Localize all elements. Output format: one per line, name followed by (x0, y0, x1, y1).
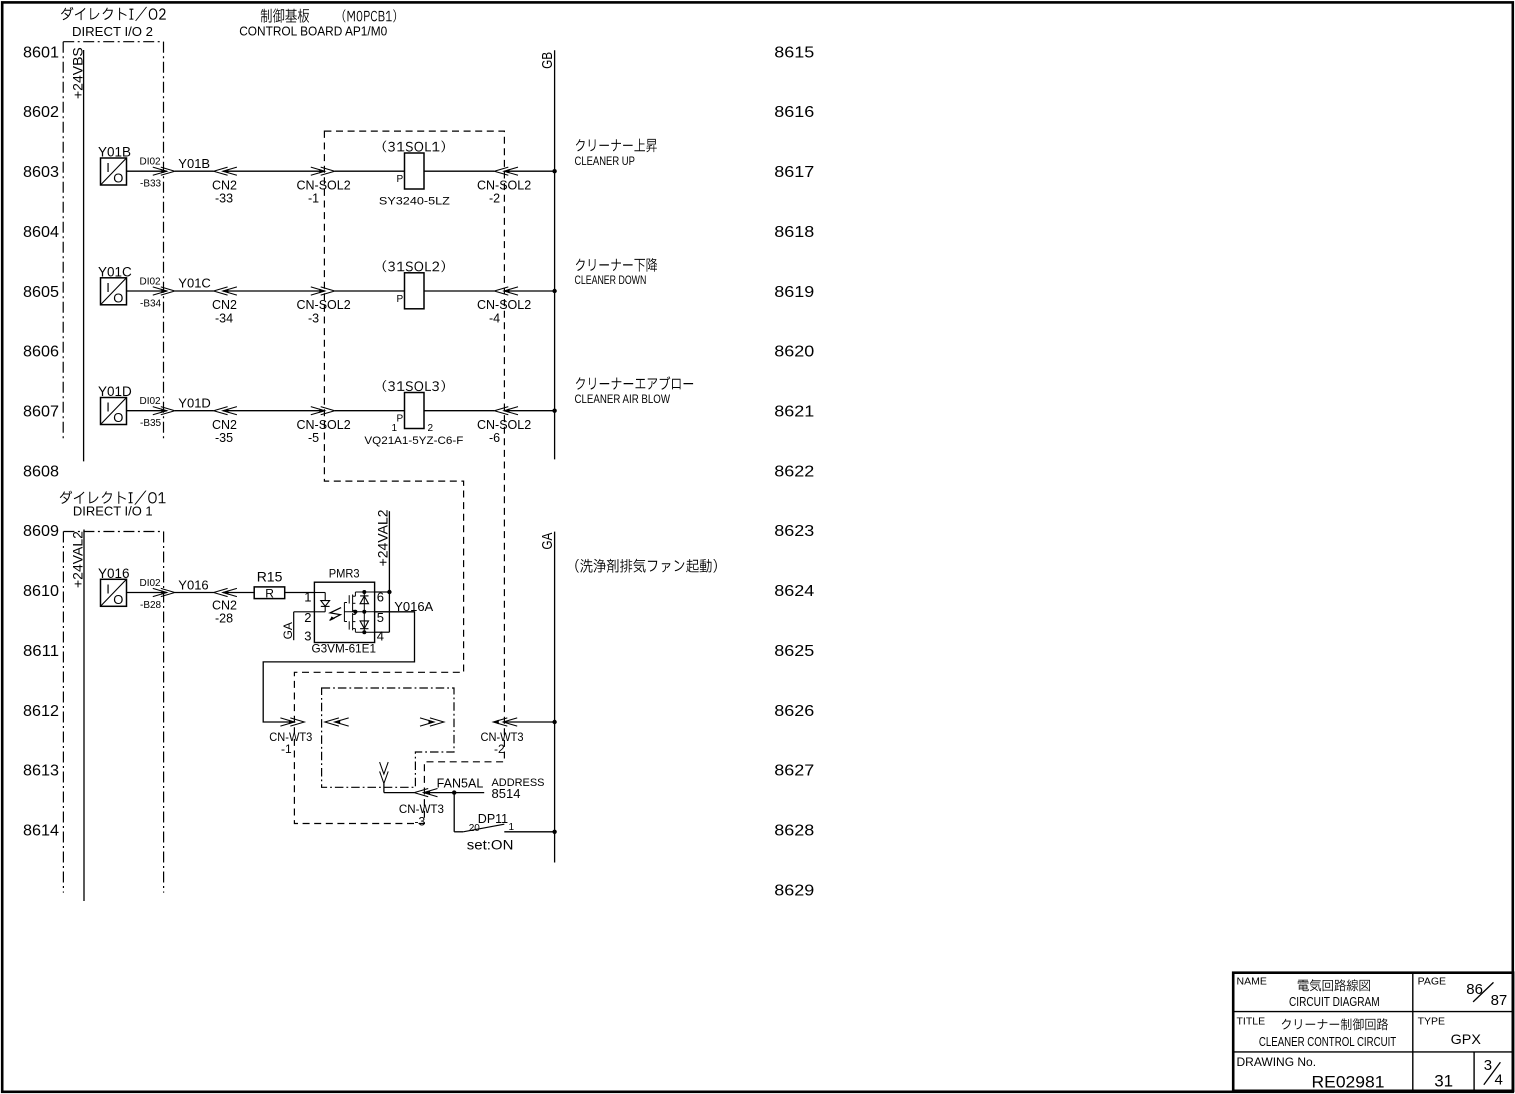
svg-text:DP11: DP11 (478, 812, 508, 826)
svg-text:8604: 8604 (23, 224, 59, 241)
dip switch DP11 (454, 812, 514, 853)
junction +24VAL2 / pin 6 (387, 590, 391, 594)
label CLEANER UP (575, 139, 657, 169)
connector CN-SOL2 -5 (297, 407, 405, 445)
svg-text:NAME: NAME (1237, 975, 1267, 987)
svg-text:PAGE: PAGE (1418, 975, 1446, 987)
svg-text:CLEANER UP: CLEANER UP (575, 154, 635, 168)
svg-text:I: I (106, 160, 110, 175)
svg-text:-B33: -B33 (140, 179, 162, 190)
wire DP11 to GA bus (504, 831, 554, 833)
connector DI02 -B35 (140, 396, 175, 429)
svg-text:8602: 8602 (23, 104, 59, 121)
wire CN-WT3 -2 to GA bus (503, 721, 554, 723)
svg-text:O: O (113, 410, 123, 425)
title block: PAGE 86/87 (1418, 975, 1508, 1009)
title: DIRECT I/O 2 module (61, 7, 166, 21)
wire R15 to PMR3 pin 1 (285, 592, 315, 594)
power rail +24VAL2 (module) (70, 530, 86, 902)
junction on GB bus at rung 8607 (552, 409, 556, 413)
svg-text:-28: -28 (215, 612, 233, 626)
junction FAN5AL / DP11 (452, 790, 456, 794)
svg-text:CLEANER AIR BLOW: CLEANER AIR BLOW (575, 392, 671, 406)
svg-text:set:ON: set:ON (467, 837, 514, 852)
svg-text:P: P (397, 294, 404, 305)
svg-text:8616: 8616 (774, 104, 814, 121)
wire CN-WT3 -3 to FAN5AL node (384, 783, 414, 792)
svg-text:-33: -33 (215, 192, 233, 206)
svg-text:DRAWING No.: DRAWING No. (1237, 1055, 1317, 1069)
title block: DRAWING No. RE02981 (1237, 1055, 1385, 1091)
svg-text:O: O (113, 592, 123, 607)
wire net Y01B (175, 156, 214, 171)
svg-text:3: 3 (1484, 1057, 1492, 1074)
connector CN-SOL2 -6 (477, 407, 555, 445)
svg-text:DI02: DI02 (140, 157, 162, 168)
wire solenoid to CN-SOL2 -2 (424, 170, 494, 172)
svg-text:8624: 8624 (774, 583, 814, 600)
svg-text:GB: GB (539, 52, 556, 69)
svg-text:CN2: CN2 (212, 178, 237, 192)
power rail +24VAL2 at PMR3 (374, 509, 390, 632)
svg-text:CN-SOL2: CN-SOL2 (297, 418, 351, 432)
wire PMR3 pin 4 to +24VAL2 (375, 631, 390, 633)
connector CN-SOL2 -4 (477, 287, 555, 325)
power rail +24VBS (69, 47, 85, 461)
wire net Y01D (175, 395, 214, 410)
svg-text:GA: GA (281, 622, 295, 639)
svg-text:8621: 8621 (774, 404, 814, 421)
svg-text:4: 4 (1495, 1072, 1503, 1089)
connector CN-WT3 -3 (vertical) (380, 762, 445, 828)
svg-text:8628: 8628 (774, 823, 814, 840)
I/O output point Y016 (98, 566, 130, 607)
svg-text:I: I (106, 581, 110, 596)
title block (1233, 973, 1513, 1091)
svg-text:R15: R15 (257, 568, 283, 584)
label ADDRESS 8514 (492, 777, 545, 801)
svg-text:8605: 8605 (23, 284, 59, 301)
junction on GB bus at rung 8603 (552, 169, 556, 173)
wire net Y016 (175, 578, 214, 593)
svg-text:8626: 8626 (774, 703, 814, 720)
svg-text:+24VBS: +24VBS (69, 47, 85, 99)
svg-text:-3: -3 (415, 814, 426, 828)
svg-text:8618: 8618 (774, 224, 814, 241)
connector CN-SOL2 -1 (297, 167, 405, 205)
junction on GB bus at rung 8605 (552, 289, 556, 293)
connector DI02 -B34 (140, 277, 175, 310)
svg-text:CLEANER CONTROL CIRCUIT: CLEANER CONTROL CIRCUIT (1259, 1035, 1397, 1049)
svg-text:CN2: CN2 (212, 298, 237, 312)
svg-text:-6: -6 (489, 431, 500, 445)
wire FAN5AL junction down to DP11 (453, 793, 455, 832)
control board AP1/M0 outline (dashed) (294, 131, 504, 823)
connector CN2 -34 (212, 287, 237, 325)
svg-text:8603: 8603 (23, 164, 59, 181)
PMR3 output MOSFET pair (344, 592, 355, 632)
wire Y016 output to connector DI02 (127, 592, 167, 594)
junction on GA bus at DP11 (552, 830, 556, 834)
svg-text:TYPE: TYPE (1418, 1015, 1445, 1027)
svg-text:-35: -35 (215, 431, 233, 445)
svg-text:+24VAL2: +24VAL2 (70, 531, 86, 588)
connector CN-WT3 -1 (269, 718, 348, 756)
title: DIRECT I/O 1 module (60, 491, 166, 505)
svg-text:1: 1 (304, 590, 311, 605)
connector DI02 -B33 (140, 157, 175, 190)
svg-text:8610: 8610 (23, 583, 59, 600)
svg-text:8627: 8627 (774, 763, 814, 780)
net stub GA at PMR3 pin 2 (281, 612, 315, 640)
svg-text:-2: -2 (494, 742, 505, 756)
svg-text:2: 2 (428, 423, 434, 434)
svg-text:-5: -5 (308, 431, 319, 445)
wire solenoid to CN-SOL2 -6 (424, 410, 494, 412)
svg-text:8607: 8607 (23, 404, 59, 421)
svg-text:-34: -34 (215, 311, 233, 325)
svg-text:Y01D: Y01D (178, 395, 211, 410)
connector DI02 -B28 (140, 578, 175, 611)
svg-text:-2: -2 (489, 192, 500, 206)
svg-text:-B35: -B35 (140, 418, 162, 429)
svg-text:FAN5AL: FAN5AL (437, 776, 484, 790)
wire CN2 -35 to CN-SOL2 -5 (223, 410, 325, 412)
note: cleaning-agent exhaust fan start (575, 559, 717, 573)
svg-text:8615: 8615 (774, 44, 814, 61)
connector CN2 -33 (212, 167, 237, 205)
rung address numbers 8601-8614 (left column) (23, 44, 59, 839)
connector CN2 -35 (212, 407, 237, 445)
solenoid 31SOL2 (383, 260, 445, 308)
svg-text:-4: -4 (489, 311, 500, 325)
module enclosure DIRECT I/O 2 (chain line) (63, 42, 163, 442)
svg-text:8601: 8601 (23, 44, 59, 61)
wire FAN5AL (425, 792, 485, 794)
svg-text:GA: GA (539, 533, 556, 550)
wire Y01D output to connector DI02 (127, 410, 167, 412)
svg-text:P: P (397, 174, 404, 185)
title block: TITLE cleaner control circuit (1237, 1015, 1397, 1049)
svg-text:20: 20 (469, 823, 481, 834)
svg-text:I: I (106, 280, 110, 295)
fan unit enclosure (dash-dot) (322, 688, 454, 787)
svg-text:CN2: CN2 (212, 418, 237, 432)
solenoid 31SOL3 (364, 380, 463, 447)
svg-text:8620: 8620 (774, 344, 814, 361)
svg-text:4: 4 (377, 629, 384, 644)
wire Y01B output to connector DI02 (127, 170, 167, 172)
svg-text:8611: 8611 (23, 643, 59, 660)
svg-text:TITLE: TITLE (1237, 1015, 1266, 1027)
svg-text:8617: 8617 (774, 164, 814, 181)
svg-text:8606: 8606 (23, 344, 59, 361)
svg-text:CN-SOL2: CN-SOL2 (297, 178, 351, 192)
svg-text:87: 87 (1491, 992, 1508, 1009)
bus GB (539, 50, 556, 459)
svg-text:8625: 8625 (774, 643, 814, 660)
wire CN2 -33 to CN-SOL2 -1 (223, 170, 325, 172)
svg-text:GPX: GPX (1451, 1031, 1482, 1047)
svg-text:CN-SOL2: CN-SOL2 (297, 298, 351, 312)
wire Y01C output to connector DI02 (127, 290, 167, 292)
I/O output point Y01B (98, 145, 131, 186)
svg-text:-1: -1 (281, 742, 292, 756)
connector CN-WT3 -2 (420, 718, 524, 756)
svg-text:-3: -3 (308, 311, 319, 325)
connector arrows on FAN5AL wire (414, 789, 437, 797)
connector CN-SOL2 -2 (477, 167, 555, 205)
svg-text:-B34: -B34 (140, 298, 162, 309)
svg-text:-B28: -B28 (140, 600, 162, 611)
wire CN2 -34 to CN-SOL2 -3 (223, 290, 325, 292)
svg-text:8614: 8614 (23, 823, 59, 840)
svg-text:DI02: DI02 (140, 277, 162, 288)
title block: NAME circuit diagram (1237, 975, 1380, 1009)
svg-text:DIRECT I/O 1: DIRECT I/O 1 (73, 503, 153, 518)
svg-text:Y016: Y016 (178, 578, 208, 593)
rung address numbers 8615-8629 (right column) (774, 44, 814, 899)
PMR3 input LED (314, 593, 329, 612)
svg-text:O: O (113, 171, 123, 186)
svg-text:CONTROL BOARD AP1/M0: CONTROL BOARD AP1/M0 (239, 24, 387, 39)
svg-text:SY3240-5LZ: SY3240-5LZ (379, 195, 450, 207)
I/O output point Y01C (98, 264, 132, 305)
svg-text:DIRECT I/O 2: DIRECT I/O 2 (72, 24, 153, 39)
svg-text:-1: -1 (308, 192, 319, 206)
title block: sheet 3/4 (1484, 1057, 1503, 1089)
svg-text:RE02981: RE02981 (1312, 1073, 1385, 1092)
PMR3 body diodes (360, 592, 368, 632)
svg-text:8514: 8514 (492, 786, 521, 801)
resistor R15 (254, 568, 285, 600)
svg-text:8613: 8613 (23, 763, 59, 780)
svg-text:Y01B: Y01B (178, 156, 210, 171)
PMR3 internal rails and junctions (344, 590, 374, 634)
svg-text:+24VAL2: +24VAL2 (374, 509, 390, 566)
svg-text:CN2: CN2 (212, 599, 237, 613)
solenoid 31SOL1 (379, 141, 450, 208)
I/O output point Y01D (98, 384, 132, 425)
svg-text:8623: 8623 (774, 523, 814, 540)
svg-text:8629: 8629 (774, 882, 814, 899)
svg-text:CLEANER DOWN: CLEANER DOWN (575, 273, 647, 287)
wire net Y016A (263, 599, 433, 722)
module enclosure DIRECT I/O 1 (chain line) (63, 532, 163, 893)
label CLEANER AIR BLOW (575, 376, 694, 406)
svg-text:P: P (397, 414, 404, 425)
svg-text:PMR3: PMR3 (329, 567, 360, 581)
svg-text:8622: 8622 (774, 463, 814, 480)
svg-text:8609: 8609 (23, 523, 59, 540)
junction on GA bus at CN-WT3 -2 (552, 720, 556, 724)
svg-text:Y01C: Y01C (178, 276, 211, 291)
svg-text:8619: 8619 (774, 284, 814, 301)
relay PMR3 (G3VM-61E1) package (312, 567, 377, 656)
wire PMR3 pin 6 to +24VAL2 (375, 591, 390, 593)
wire CN2 -28 to resistor R15 (223, 592, 254, 594)
wire solenoid to CN-SOL2 -4 (424, 290, 494, 292)
svg-text:CIRCUIT DIAGRAM: CIRCUIT DIAGRAM (1289, 995, 1380, 1009)
connector CN-SOL2 -3 (297, 287, 405, 325)
wire net Y01C (175, 276, 214, 291)
title block: TYPE GPX (1418, 1015, 1482, 1046)
svg-text:G3VM-61E1: G3VM-61E1 (312, 641, 377, 655)
svg-text:R: R (265, 587, 274, 601)
label CLEANER DOWN (575, 258, 658, 287)
svg-text:VQ21A1-5YZ-C6-F: VQ21A1-5YZ-C6-F (364, 435, 463, 447)
svg-text:8608: 8608 (23, 463, 59, 480)
svg-text:O: O (113, 290, 123, 305)
svg-text:3: 3 (304, 629, 311, 644)
svg-text:DI02: DI02 (140, 396, 162, 407)
svg-text:1: 1 (392, 423, 398, 434)
svg-text:31: 31 (1434, 1072, 1453, 1091)
svg-text:I: I (106, 400, 110, 415)
bus GA (539, 532, 556, 863)
svg-text:8612: 8612 (23, 703, 59, 720)
PMR3 opto coupling arrows (329, 608, 341, 621)
title: control board AP1/M0 (261, 9, 396, 23)
svg-text:DI02: DI02 (140, 578, 162, 589)
connector CN2 -28 (212, 588, 237, 625)
